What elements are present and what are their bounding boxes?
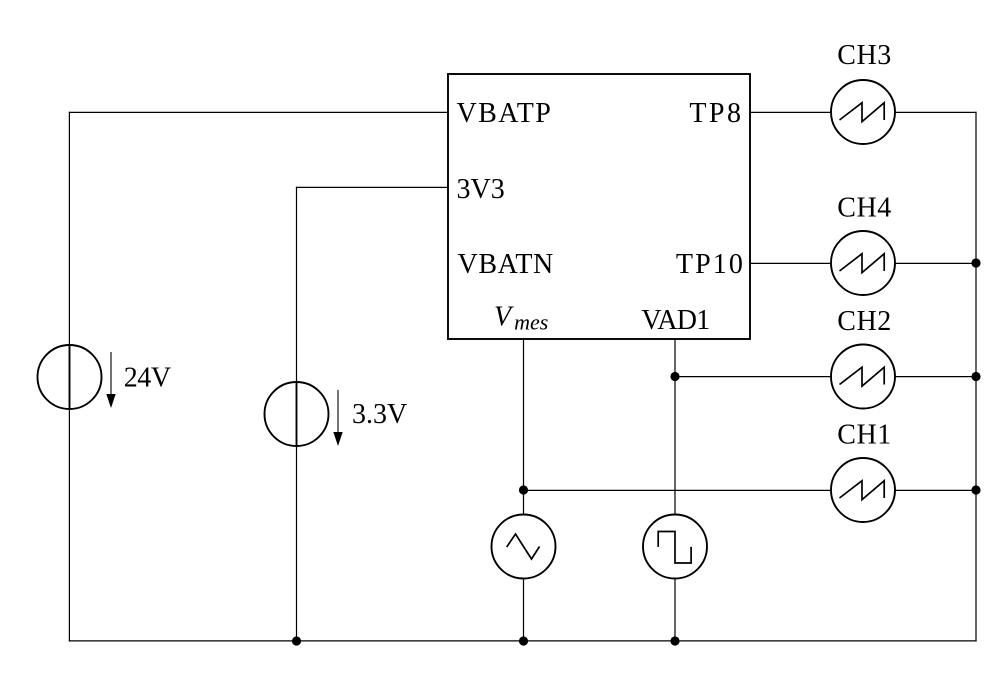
junction Vmes bottom — [519, 636, 528, 645]
wire Vmes vertical — [523, 339, 525, 642]
oscilloscope channel CH2 — [831, 345, 895, 409]
svg-text:24V: 24V — [124, 363, 171, 394]
wire CH4 to right rail — [895, 262, 977, 264]
svg-text:TP10: TP10 — [676, 249, 745, 280]
wire TP10 to CH4 — [750, 262, 832, 264]
wire CH2 to right rail — [895, 376, 977, 378]
junction right rail CH1 — [971, 485, 980, 494]
wire TP8 to CH3 — [750, 111, 832, 113]
svg-text:CH1: CH1 — [837, 419, 891, 450]
junction VAD1 bottom — [670, 636, 679, 645]
voltage arrow V2 — [333, 390, 342, 446]
svg-text:TP8: TP8 — [689, 98, 743, 129]
svg-text:VBATP: VBATP — [457, 98, 553, 129]
wire bottom rail — [69, 640, 977, 642]
triangle-wave source on Vmes — [492, 515, 556, 579]
oscilloscope channel CH3 — [831, 80, 895, 144]
junction Vmes branch — [519, 485, 528, 494]
junction VAD1 branch — [670, 372, 679, 381]
svg-text:VAD1: VAD1 — [641, 305, 709, 336]
junction right rail CH4 — [971, 258, 980, 267]
wire VBATP horizontal — [69, 111, 448, 113]
voltage arrow V1 — [106, 352, 115, 408]
wire Vmes branch to CH1 — [524, 489, 832, 491]
voltage source V2 body — [265, 382, 329, 446]
wire 3V3 rail vertical — [296, 187, 298, 642]
block U1 DUT — [448, 74, 750, 339]
svg-text:CH4: CH4 — [837, 193, 891, 224]
svg-text:3.3V: 3.3V — [352, 399, 407, 430]
junction 3V3 bottom — [292, 636, 301, 645]
junction right rail CH2 — [971, 372, 980, 381]
svg-text:VBATN: VBATN — [458, 249, 554, 280]
voltage source V1 body — [38, 345, 102, 409]
oscilloscope channel CH1 — [831, 458, 895, 522]
wire right rail vertical — [975, 112, 977, 642]
svg-text:3V3: 3V3 — [457, 174, 505, 205]
svg-text:CH2: CH2 — [837, 306, 891, 337]
wire 3V3 horizontal — [296, 186, 448, 188]
wire VAD1 branch to CH2 — [675, 376, 832, 378]
oscilloscope channel CH4 — [831, 231, 895, 295]
wire VAD1 vertical — [674, 339, 676, 642]
svg-text:CH3: CH3 — [837, 40, 891, 71]
wire CH1 to right rail — [895, 489, 977, 491]
wire left rail vertical — [68, 112, 70, 642]
square-wave source on VAD1 — [643, 515, 707, 579]
wire CH3 to right rail — [895, 111, 977, 113]
